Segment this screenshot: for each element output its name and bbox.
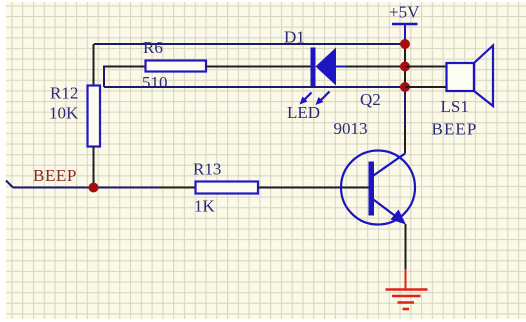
wire BEEP entry diagonal [6, 181, 13, 188]
wire R12 top vertical [93, 44, 95, 86]
wire R6 row left [104, 66, 146, 68]
svg-text:+5V: +5V [389, 3, 420, 22]
svg-text:R13: R13 [193, 160, 221, 179]
power +5V symbol [389, 3, 420, 45]
wire +5V column vertical to collector [404, 125, 406, 154]
svg-text:R6: R6 [143, 38, 163, 57]
wire emitter to ground [405, 224, 407, 272]
svg-text:10K: 10K [49, 104, 79, 123]
svg-text:BEEP: BEEP [432, 120, 478, 139]
svg-text:510: 510 [142, 73, 168, 92]
svg-text:9013: 9013 [334, 119, 368, 138]
svg-text:R12: R12 [50, 84, 78, 103]
resistor R6 [142, 38, 206, 92]
wire R6 to D1 cathode [206, 66, 311, 68]
svg-text:Q2: Q2 [360, 90, 381, 109]
LED arrow 2 [316, 92, 330, 106]
wire +5V column vertical mid [404, 87, 406, 125]
speaker LS1 [432, 46, 494, 139]
wire speaker pin bottom [405, 86, 447, 88]
wire speaker pin top [405, 66, 447, 68]
wire D1 anode to rail [346, 66, 405, 68]
junction dot rail row B [400, 62, 410, 72]
resistor R12 [49, 84, 100, 147]
svg-text:LS1: LS1 [441, 97, 469, 116]
wire +5V column vertical upper [404, 44, 406, 87]
svg-text:D1: D1 [284, 28, 305, 47]
svg-text:BEEP: BEEP [33, 166, 77, 185]
wire BEEP horizontal [13, 187, 160, 189]
wire loop corner vertical [103, 66, 105, 88]
svg-text:1K: 1K [194, 197, 216, 216]
wire R12 bottom vertical [93, 147, 95, 186]
wire +5V rail horizontal [94, 43, 405, 45]
junction dot BEEP node [89, 183, 99, 193]
transistor Q2 [334, 90, 416, 225]
wire base of Q2 [258, 187, 369, 189]
junction dot rail row C [400, 82, 410, 92]
wire BEEP horizontal right segment [160, 187, 196, 189]
resistor R13 [193, 160, 258, 216]
junction dot rail row A [400, 39, 410, 49]
diode D1 [284, 28, 346, 87]
svg-text:LED: LED [287, 103, 320, 122]
ground symbol [386, 269, 428, 309]
wire lower rail under D1 [104, 86, 405, 88]
LED arrow 1 [300, 93, 312, 105]
